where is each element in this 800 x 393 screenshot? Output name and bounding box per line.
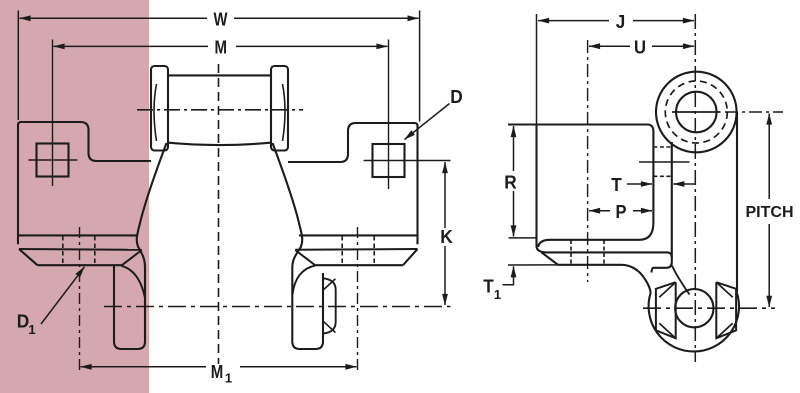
foot chamfer (542, 252, 559, 264)
eye pin hole circle (676, 92, 717, 133)
svg-text:J: J (616, 12, 626, 32)
barrel left flange face arc (154, 84, 157, 141)
lower barrel outer arc (649, 292, 739, 352)
dimension W extension line right (419, 11, 421, 122)
body right edge (736, 112, 738, 292)
svg-text:M: M (215, 37, 228, 57)
right sidebar section (716, 282, 736, 338)
svg-text:D: D (450, 87, 463, 107)
svg-text:1: 1 (28, 322, 35, 337)
dimension PITCH line with arrows (768, 114, 770, 200)
foot left: top edge (18, 234, 138, 236)
dimension U extension / plate hole centerline (587, 40, 589, 282)
barrel horizontal centerline (137, 109, 303, 111)
svg-text:1: 1 (494, 287, 501, 302)
svg-text:D: D (17, 312, 30, 332)
right leg chamfer diagonals (324, 279, 336, 290)
R bottom extension line (509, 237, 538, 239)
dimension J line with arrows (538, 20, 609, 22)
foot left: bottom edge (38, 264, 122, 266)
left square hole horizontal centerline (29, 159, 78, 161)
foot right hole centerline / M1 extension (357, 227, 359, 373)
leader line for D (405, 104, 450, 140)
T1 arrow and elbow (513, 266, 515, 279)
svg-text:K: K (440, 227, 453, 247)
chain vertical centerline / J-U right extension (694, 14, 696, 362)
foot right inner chamfer (295, 250, 315, 266)
right leg sidebar end cap (323, 278, 336, 333)
plate left edge (537, 125, 548, 253)
svg-text:W: W (214, 10, 228, 30)
foot left hole centerline / M1 extension (79, 227, 81, 373)
dimension P line with arrows (589, 210, 610, 212)
leader line for D1 (41, 267, 85, 324)
svg-text:T: T (483, 276, 494, 296)
foot right: chamfer (403, 249, 418, 265)
flange bottom edge (547, 252, 672, 257)
dimension R line with arrows (513, 126, 515, 171)
T1 bottom extension line (508, 264, 558, 266)
hidden square hole edges in bar (653, 146, 671, 148)
chain horizontal centerline (104, 306, 451, 308)
barrel body top edge (168, 74, 271, 76)
dimension W extension line left (17, 11, 19, 121)
barrel right flange face arc (283, 84, 286, 141)
foot right: bottom edge (316, 264, 403, 266)
svg-text:R: R (504, 172, 517, 192)
foot right hidden hole edges (341, 236, 343, 265)
foot left inner chamfer (121, 250, 141, 266)
plate top edge with R extension (508, 125, 653, 132)
eye hidden barrel circle (665, 81, 727, 143)
foot left: shoulder line (19, 248, 142, 251)
eye horizontal centerline (672, 111, 721, 113)
dimension M extension line right (square hole centerline) (388, 40, 390, 190)
svg-text:T: T (611, 175, 622, 195)
dimension M line with arrows (54, 45, 209, 47)
attachment bar right edge (652, 142, 672, 273)
body right slope (273, 143, 303, 268)
left leg outline (114, 265, 145, 349)
svg-text:M: M (211, 362, 224, 382)
hidden foot hole edges in flange (570, 240, 572, 265)
foot bottom edge with S-curve into barrel (558, 265, 651, 293)
foot right: top edge (299, 234, 418, 236)
dimension K line with arrows (444, 162, 446, 228)
hook face curve (672, 266, 690, 295)
svg-text:U: U (634, 37, 646, 57)
svg-text:PITCH: PITCH (746, 204, 794, 221)
right wing outline (288, 123, 418, 244)
right square hole horizontal centerline / K extension (364, 160, 451, 162)
attachment bar left edge (640, 132, 654, 240)
body left slope (137, 143, 167, 268)
lower barrel horizontal centerline (643, 307, 775, 309)
dimension J extension line left (536, 14, 538, 124)
attachment hole centerline (639, 161, 690, 163)
dimension M extension line left (square hole centerline) (52, 40, 54, 187)
foot left hidden hole edges D1 (62, 236, 64, 265)
barrel body bottom edge (167, 143, 272, 145)
svg-text:1: 1 (225, 371, 232, 386)
right square hole D (373, 144, 405, 177)
flange top edge (538, 240, 640, 247)
barrel left flange (151, 66, 168, 151)
eye outer circle (656, 72, 737, 153)
dimension U line with arrows (589, 45, 630, 47)
pink highlight band (0, 0, 149, 393)
left square hole D1 top (37, 144, 69, 177)
right leg outline (292, 268, 323, 349)
foot right: shoulder line (295, 248, 417, 251)
vertical centerline of left view (218, 64, 220, 364)
foot left: chamfer (19, 249, 38, 265)
right leg inner hook arc (293, 265, 316, 294)
dimension W line with arrows (20, 17, 208, 19)
lower barrel pin hole (675, 289, 713, 327)
dimension T arrows (627, 183, 652, 185)
left wing outline (18, 122, 151, 244)
barrel right flange (271, 66, 288, 151)
left leg inner hook arc (121, 266, 144, 297)
left sidebar section (656, 282, 676, 338)
dimension M1 line with arrows (81, 366, 207, 368)
svg-text:P: P (616, 202, 627, 222)
